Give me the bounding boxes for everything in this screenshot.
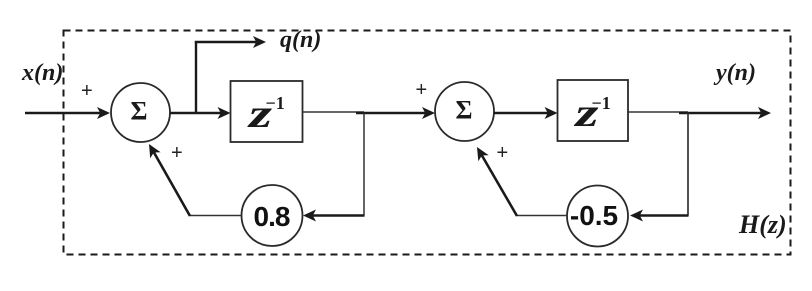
dashed system boundary box: [64, 31, 791, 255]
wire D2 to junction J2: [628, 111, 688, 113]
svg-text:y(n): y(n): [713, 60, 756, 86]
svg-text:-0.5: -0.5: [570, 200, 618, 231]
svg-text:+: +: [497, 142, 509, 164]
op-amp summer S2: [435, 82, 494, 141]
wire input arrow into summer S1: [25, 107, 110, 119]
svg-text:+: +: [416, 79, 428, 101]
wire D1 to junction J1: [303, 111, 365, 113]
wire into gain G1 right side: [303, 210, 365, 222]
delay block D2 z^-1: [558, 80, 629, 141]
wire G2 out to elbow: [517, 215, 567, 217]
svg-text:+: +: [171, 142, 183, 164]
svg-text:+: +: [81, 80, 93, 102]
svg-text:Σ: Σ: [456, 96, 473, 125]
wire junction J2 to output y(n): [679, 107, 771, 119]
wire J2 down to feedback G2: [687, 113, 689, 216]
wire G1 out to elbow: [190, 215, 242, 217]
wire S1 to delay box D1: [170, 107, 231, 119]
svg-text:−1: −1: [266, 93, 285, 113]
gain G2 -0.5: [567, 186, 628, 247]
svg-text:−1: −1: [592, 93, 611, 113]
delay block D1 z^-1: [231, 81, 303, 142]
wire diagonal feedback arrow into S2: [477, 147, 517, 216]
wire branch up to q(n) output: [195, 36, 266, 114]
svg-text:q(n): q(n): [280, 27, 321, 53]
wire diagonal feedback arrow into S1: [149, 144, 190, 216]
svg-text:H(z): H(z): [738, 210, 787, 239]
svg-text:x(n): x(n): [21, 60, 63, 86]
op-amp summer S1: [111, 83, 170, 142]
svg-text:0.8: 0.8: [254, 201, 290, 232]
wire junction J1 to summer S2: [356, 107, 435, 119]
wire S2 to delay box D2: [494, 107, 558, 119]
wire J1 down to feedback G1: [363, 113, 365, 216]
svg-text:Σ: Σ: [131, 97, 148, 126]
wire into gain G2 right side: [630, 210, 689, 222]
gain G1 0.8: [242, 185, 303, 246]
